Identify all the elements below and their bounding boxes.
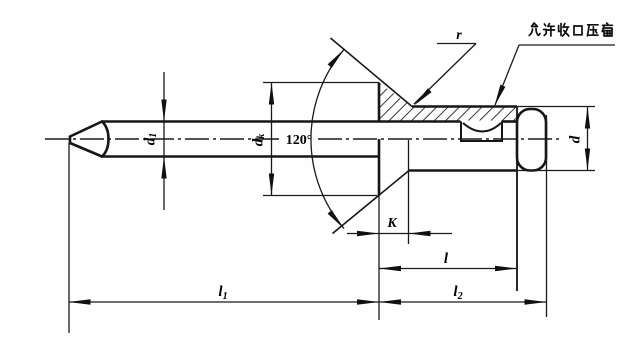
node head-face — [378, 83, 381, 196]
wire body-bottom-edge — [409, 169, 517, 172]
svg-text:l2: l2 — [453, 284, 462, 302]
dimension d line — [587, 107, 589, 171]
wire ext-line-head-face — [378, 196, 380, 321]
dimension l1 arrows — [69, 299, 380, 304]
dimension dk line — [271, 83, 273, 196]
dimension K arrows — [357, 231, 431, 236]
dimension l line — [379, 268, 517, 270]
svg-text:r: r — [456, 28, 462, 43]
wire rod-bottom-edge — [102, 155, 380, 158]
leader allow-flatten arrow — [495, 85, 506, 106]
wire ext-line-K — [408, 140, 410, 244]
node mandrel-head-oval — [517, 109, 546, 171]
char kou — [574, 26, 582, 35]
wire rod-top-edge — [102, 120, 517, 123]
dimension 120deg arc — [311, 49, 344, 228]
wire cone-bottom-line — [333, 171, 410, 234]
hatched section of rivet body — [380, 84, 516, 121]
dimension l2 line — [379, 301, 547, 303]
node crimp-notch — [461, 122, 502, 142]
label allow-flatten (Chinese hand strokes) — [529, 23, 612, 36]
dimension K — [347, 233, 452, 235]
svg-text:dk: dk — [250, 134, 267, 147]
dimension d1 line — [163, 72, 165, 210]
svg-text:K: K — [386, 216, 398, 231]
dimension d arrows — [585, 107, 590, 171]
dimension l arrows — [379, 266, 517, 271]
wire ext-line-d-bottom — [517, 170, 595, 172]
svg-text:l1: l1 — [218, 284, 227, 302]
svg-text:d1: d1 — [142, 133, 159, 146]
svg-text:120°: 120° — [286, 133, 313, 148]
node body-end-face — [516, 107, 518, 292]
wire ext-line-body-end — [516, 171, 518, 291]
wire ext-line-dk-bottom — [263, 195, 377, 197]
svg-text:d: d — [567, 135, 583, 143]
char bian — [602, 23, 612, 36]
wire ext-line-oval-right — [546, 115, 548, 317]
leader allow-flatten — [495, 45, 615, 105]
leader r — [414, 44, 476, 105]
node mandrel-tip — [70, 122, 109, 157]
wire body-top-edge — [412, 105, 517, 108]
dimension arc arrows — [328, 49, 344, 228]
dimension dk arrows — [269, 83, 274, 196]
wire ext-line-tip — [68, 143, 70, 333]
wire ext-line-dk-top — [263, 82, 379, 84]
char shou — [559, 24, 569, 37]
svg-text:l: l — [444, 251, 449, 267]
leader r arrow — [414, 88, 432, 105]
char yun — [529, 23, 540, 36]
wire ext-line-d-top — [517, 106, 595, 108]
dimension d1 arrows — [161, 100, 166, 179]
char xu — [544, 24, 555, 37]
char ya — [587, 25, 598, 36]
wire centerline (dash-dot axis) — [45, 138, 559, 140]
dimension l1 line — [69, 301, 380, 303]
dimension l2 arrows — [379, 299, 547, 304]
wire cone-top-line — [331, 38, 413, 107]
